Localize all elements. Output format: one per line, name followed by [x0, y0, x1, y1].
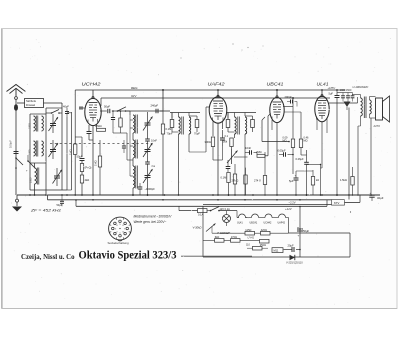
svg-text:300Ω: 300Ω — [205, 140, 211, 144]
wire agc rail — [74, 137, 76, 144]
tube V3 pins — [276, 122, 278, 195]
wire box to bandswitch — [44, 102, 63, 104]
diode rectifier — [290, 255, 295, 260]
svg-text:REG: REG — [131, 86, 138, 90]
svg-text:M11: M11 — [274, 249, 279, 253]
coil L1 primary — [34, 116, 36, 131]
potentiometer heater — [206, 224, 216, 232]
capacitor 1000pF padder — [138, 186, 143, 188]
capacitor 70pF IF1b — [195, 120, 199, 128]
svg-text:ZF = 452 kHz: ZF = 452 kHz — [30, 208, 62, 212]
junction bf — [45, 194, 47, 196]
resistor 1M osc grid — [98, 156, 101, 167]
svg-text:240pF: 240pF — [151, 104, 159, 108]
tube V3 internals — [273, 101, 282, 103]
bus2 junction dots — [92, 199, 94, 201]
speaker — [376, 98, 383, 120]
svg-text:Czeija, Nissl u. Co: Czeija, Nissl u. Co — [21, 253, 75, 261]
wire bf cross top — [30, 113, 46, 115]
svg-text:Oktavio Spezial 323/3: Oktavio Spezial 323/3 — [79, 249, 177, 262]
resistor 250 — [260, 239, 270, 243]
svg-text:(P+Ω): (P+Ω) — [85, 166, 92, 170]
capacitor tone a — [341, 95, 345, 97]
capacitor osc grid — [112, 111, 114, 117]
svg-text:0.1M: 0.1M — [221, 176, 227, 180]
wire osc out right — [116, 110, 163, 112]
resistor 27k det — [244, 175, 247, 184]
gang coupling dashed line — [50, 143, 152, 145]
wire heater left rail — [202, 207, 204, 258]
capacitor 10nF osc — [145, 138, 150, 140]
svg-text:UBC41: UBC41 — [250, 221, 258, 224]
capacitor 32uF — [369, 194, 374, 196]
svg-text:UCH42: UCH42 — [82, 81, 102, 86]
coil IF2 primary — [235, 117, 237, 134]
wire osc coil column — [132, 133, 134, 140]
svg-text:U-100V/ΩNC: U-100V/ΩNC — [353, 85, 369, 89]
tube V2 pin wires — [212, 122, 214, 137]
svg-text:10nF: 10nF — [245, 146, 251, 150]
svg-text:UAF42: UAF42 — [208, 81, 226, 86]
svg-text:Werte gem. bei 220V~: Werte gem. bei 220V~ — [134, 220, 167, 224]
resistor M11 — [272, 248, 283, 253]
coil L1 core — [35, 116, 37, 132]
svg-text:+: + — [298, 234, 300, 238]
svg-text:+185V: +185V — [328, 86, 336, 90]
coil L1 secondary — [42, 116, 44, 131]
tube V2 pin top — [217, 90, 219, 97]
wire REG line — [75, 89, 345, 91]
wire bf mid rail — [45, 108, 47, 195]
svg-text:UAF42: UAF42 — [278, 221, 286, 224]
wire cv rails — [52, 114, 54, 124]
coil IF1 secondary — [189, 117, 191, 134]
wire bf cross bottom — [30, 189, 67, 191]
wire bus1 to 32uF — [203, 203, 332, 205]
svg-text:0.05µF: 0.05µF — [278, 149, 287, 153]
capacitor antenna series — [14, 151, 19, 153]
wire IF2 top — [226, 112, 256, 114]
wire osc cv rails — [147, 112, 149, 123]
speck marks — [181, 58, 182, 59]
wire to UBC grid — [265, 155, 268, 157]
wire agc mid — [81, 161, 83, 164]
coil OSC1 — [133, 115, 135, 133]
svg-text:1MΩ: 1MΩ — [94, 160, 98, 166]
coil OSC3 — [133, 166, 135, 188]
svg-text:Meßinstrument ~1000Ω/V: Meßinstrument ~1000Ω/V — [134, 215, 173, 219]
variable capacitor osc CV4 — [145, 122, 151, 124]
tube V1 pin wires — [88, 125, 90, 131]
svg-text:1500 1500: 1500 1500 — [340, 89, 352, 92]
capacitor cathode V2 — [220, 137, 225, 139]
variable capacitor CV2 — [50, 149, 56, 151]
heater UAF42 — [279, 214, 286, 217]
svg-text:+12V: +12V — [285, 207, 293, 211]
svg-text:70pF: 70pF — [167, 132, 173, 136]
coil L2 primary — [34, 141, 36, 156]
svg-text:2473: 2473 — [373, 124, 381, 128]
wire 92V line — [101, 97, 330, 99]
svg-text:10nF: 10nF — [151, 139, 157, 143]
noise-suppressor box — [25, 99, 44, 108]
top line junction dots — [276, 89, 278, 91]
resistor 1M antenna — [74, 144, 77, 155]
svg-text:67V: 67V — [334, 201, 339, 205]
svg-text:MΩ: MΩ — [283, 140, 287, 143]
svg-text:100pF: 100pF — [9, 140, 13, 148]
tube socket diagram — [109, 217, 132, 240]
svg-text:UY41: UY41 — [248, 235, 255, 239]
bus third — [76, 205, 327, 207]
wire det — [231, 147, 233, 150]
svg-text:kΩ: kΩ — [316, 179, 319, 182]
wire UBC grid loop — [261, 120, 263, 142]
coil L2 secondary — [42, 141, 44, 156]
variable capacitor CV3 — [54, 175, 60, 177]
svg-text:UL41: UL41 — [317, 81, 329, 86]
wire coil L3 bottom — [34, 184, 36, 195]
switch bf left — [27, 160, 29, 162]
capacitor cathode bypass — [87, 131, 92, 133]
svg-text:~2.2V: ~2.2V — [289, 201, 296, 205]
svg-text:12V 0.1A: 12V 0.1A — [220, 208, 231, 211]
coil OSC core2 — [135, 140, 137, 159]
capacitor 70pF IF1a — [170, 120, 174, 128]
svg-text:0.26µF: 0.26µF — [296, 157, 305, 161]
wire tone top — [337, 92, 353, 94]
wire osc grid bottom — [113, 132, 127, 134]
svg-text:Störfunk: Störfunk — [26, 99, 37, 103]
coil IF1 primary — [179, 117, 181, 134]
svg-text:Sockelschaltung: Sockelschaltung — [108, 241, 129, 245]
bus second — [47, 195, 49, 200]
svg-text:420Ω: 420Ω — [261, 229, 267, 232]
svg-text:170Ω: 170Ω — [231, 236, 237, 239]
wire V4 plate to xfmr — [329, 102, 358, 104]
ground bus main — [17, 194, 380, 196]
coil L2 core — [35, 141, 37, 157]
wire agc top link — [75, 136, 82, 138]
resistor 4k agc — [80, 175, 83, 183]
capacitor 50uF agc — [80, 158, 85, 160]
potentiometer volume — [231, 149, 233, 164]
resistor 274R — [263, 176, 266, 185]
wire below plates — [292, 148, 294, 175]
wire plate feeds — [292, 107, 294, 139]
resistor osc grid leak — [119, 118, 122, 127]
resistor kath 313 — [311, 177, 314, 186]
coil OSC2 — [133, 140, 135, 158]
capacitor 5uF V3 — [294, 177, 299, 179]
output transformer secondary — [370, 100, 372, 114]
tube V1 internals — [89, 102, 98, 104]
resistor 0.09M plate — [291, 139, 294, 148]
wire V2 cathode join — [212, 147, 214, 161]
wire bf right rail — [61, 112, 63, 190]
tube V1 UCH42 envelope — [85, 98, 101, 125]
capacitor det bottom — [226, 166, 231, 168]
svg-text:Drossel: Drossel — [26, 103, 36, 107]
variable capacitor CV1 — [50, 123, 56, 125]
tube V4 pin top — [321, 90, 323, 96]
svg-text:UBC41: UBC41 — [267, 81, 284, 86]
svg-text:V-225/125/110: V-225/125/110 — [286, 261, 303, 265]
resistor 110 — [253, 246, 263, 250]
capacitor tone c — [351, 95, 355, 97]
capacitor 70pF IF2a — [226, 120, 230, 128]
svg-text:V-30kΩ: V-30kΩ — [193, 226, 202, 230]
resistor 50k det — [230, 138, 233, 147]
wire heater rows — [212, 232, 245, 234]
tube V4 internals — [318, 100, 327, 102]
resistor P+O — [80, 164, 83, 172]
coil OSC core3 — [135, 166, 137, 189]
tube V3 UBC41 envelope — [270, 97, 284, 122]
heater UL41 — [236, 211, 238, 218]
tube V1 grid wire — [79, 107, 85, 109]
variable capacitor osc CV5 — [145, 149, 151, 151]
title rule — [181, 255, 252, 257]
trimmer Ca — [145, 161, 150, 163]
svg-text:1MΩ: 1MΩ — [69, 149, 73, 155]
coil OSC core1 — [135, 115, 137, 134]
capacitor 70pF IF2b — [251, 120, 255, 128]
coil IF2 secondary — [245, 117, 247, 134]
tube V2 UAF42 envelope — [209, 97, 227, 123]
output transformer primary — [361, 98, 363, 116]
svg-text:50µF: 50µF — [77, 155, 83, 159]
svg-text:MΩ: MΩ — [304, 140, 308, 143]
wire osc bottoms — [147, 190, 149, 195]
switch osc band — [117, 110, 119, 112]
switch wave-trap — [15, 157, 17, 159]
resistor 0.1M det — [227, 173, 230, 183]
svg-text:110: 110 — [246, 243, 250, 246]
resistor 0.46M plate — [299, 139, 302, 148]
svg-text:32µF: 32µF — [377, 196, 384, 200]
svg-text:50pF: 50pF — [104, 104, 110, 108]
switch bf top — [51, 112, 53, 114]
resistor 300R cathode V2 — [211, 137, 214, 147]
left page edge shadow — [1, 29, 3, 308]
svg-text:6kΩ: 6kΩ — [215, 236, 220, 239]
resistor 2M grid — [257, 154, 265, 157]
heater UCH42 — [265, 214, 272, 217]
wire xfmr top — [348, 108, 350, 200]
resistor 0.1M osc — [161, 124, 164, 134]
scan noise speckle — [130, 71, 133, 74]
wire osc taps — [130, 119, 133, 121]
wire secondary — [369, 97, 371, 101]
capacitor osc pad2 — [122, 145, 126, 147]
svg-text:47kΩ: 47kΩ — [95, 124, 102, 128]
svg-text:27k Ω: 27k Ω — [232, 178, 239, 182]
socket pins — [119, 234, 122, 237]
fuse 0.1A — [179, 210, 198, 212]
wire antenna down — [15, 99, 17, 104]
wire antenna to box — [17, 102, 25, 104]
svg-text:50µF: 50µF — [303, 229, 310, 233]
tube V2 grid wire — [206, 106, 210, 108]
svg-text:Ca: Ca — [152, 164, 156, 168]
wire trimmer rail — [66, 117, 68, 190]
svg-text:70pF: 70pF — [194, 132, 200, 136]
svg-text:1.5kΩ: 1.5kΩ — [340, 178, 347, 182]
antenna coil blob — [14, 104, 18, 111]
capacitor tone b — [346, 95, 350, 97]
tube V1 pin top — [92, 90, 94, 98]
tube V4 pins bottom — [321, 122, 323, 168]
wire cathode join — [89, 139, 93, 141]
coil IF2 core — [237, 117, 239, 135]
wire IF1 bottoms — [178, 134, 180, 195]
wire IF2 bottoms — [234, 134, 236, 138]
resistor 125 — [245, 231, 255, 235]
svg-text:100Ω: 100Ω — [29, 123, 32, 129]
wire power mid vertical — [299, 207, 301, 258]
svg-text:5µF: 5µF — [329, 91, 334, 95]
capacitor 50uF bus — [60, 200, 64, 202]
svg-text:1000: 1000 — [29, 149, 32, 155]
resistor 170 — [231, 239, 241, 243]
output transformer core — [363, 97, 365, 119]
trimmer capacitor 40pF — [65, 111, 69, 113]
electrolytic 50uF — [297, 228, 303, 230]
resistor det2 — [233, 174, 236, 184]
label 67V box — [332, 200, 345, 206]
resistor 420 — [261, 231, 271, 235]
svg-text:~1000pF: ~1000pF — [145, 187, 156, 191]
mark a — [350, 211, 351, 212]
resistor 6k — [215, 239, 225, 243]
wire cath cluster — [296, 170, 313, 172]
antenna — [7, 85, 26, 92]
coil L3 — [35, 168, 37, 184]
tube V3 pin top — [276, 90, 278, 98]
socket pin ticks — [122, 237, 125, 239]
resistor 1k5 bleeder — [351, 177, 354, 186]
resistor 47k cathode — [97, 128, 106, 131]
coil L3 core — [36, 168, 38, 185]
tube V2 internals — [213, 100, 223, 102]
svg-text:2000: 2000 — [30, 177, 33, 183]
svg-text:20µF: 20µF — [288, 244, 295, 248]
variable capacitor osc CV6 — [145, 175, 151, 177]
heater UBC41 — [247, 217, 252, 219]
svg-text:290pF: 290pF — [285, 95, 293, 99]
bottom page edge shadow — [2, 308, 397, 310]
svg-text:50k: 50k — [223, 140, 228, 144]
svg-text:4kΩ: 4kΩ — [85, 178, 90, 182]
tube V4 UL41 envelope — [315, 96, 329, 122]
ground symbol — [16, 195, 18, 199]
feedback arrow — [344, 102, 351, 108]
wire agc bottom — [81, 183, 83, 195]
svg-text:UL41: UL41 — [237, 221, 243, 224]
svg-text:40pF: 40pF — [63, 105, 69, 109]
wire antenna column — [15, 111, 17, 195]
svg-text:0.1: 0.1 — [225, 135, 229, 138]
bus junction dots — [29, 194, 31, 196]
wire xfmr bottoms — [360, 120, 362, 126]
svg-text:UCH42: UCH42 — [264, 221, 273, 224]
wire rail 320 — [320, 165, 322, 196]
coil IF1 core — [181, 117, 183, 135]
wire bf left rail — [29, 114, 31, 190]
wire IF1 top — [170, 112, 200, 114]
svg-text:125Ω: 125Ω — [245, 229, 251, 232]
node antenna coupling circle — [15, 97, 18, 100]
switch mains — [207, 210, 210, 212]
wire power bottom — [203, 256, 350, 258]
wire drop x163 — [162, 90, 164, 111]
